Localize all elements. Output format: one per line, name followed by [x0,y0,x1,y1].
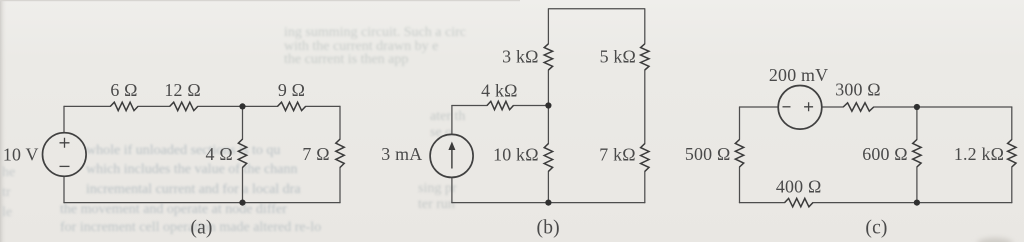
svg-text:the current is then app: the current is then app [284,52,408,67]
svg-text:ing summing circuit. Such a ci: ing summing circuit. Such a circ [284,25,466,40]
svg-text:600 Ω: 600 Ω [862,144,908,164]
svg-text:whole if unloaded sections is: whole if unloaded sections is to qu [86,143,280,158]
svg-text:7 Ω: 7 Ω [302,144,329,164]
svg-text:10 V: 10 V [3,145,39,165]
svg-text:ater th: ater th [430,109,465,124]
svg-text:(a): (a) [190,218,212,239]
svg-text:4 Ω: 4 Ω [206,144,233,164]
svg-text:ter run: ter run [418,197,455,212]
svg-text:500 Ω: 500 Ω [685,144,731,164]
svg-text:200 mV: 200 mV [769,65,828,85]
svg-text:10 kΩ: 10 kΩ [493,144,539,164]
svg-text:le: le [2,205,12,220]
svg-text:3 mA: 3 mA [381,144,422,164]
svg-text:incremental current and for a: incremental current and for a local dra [86,182,301,197]
svg-text:4 kΩ: 4 kΩ [481,81,517,101]
svg-text:the movement and operate at no: the movement and operate at node differ [60,202,287,217]
svg-text:sing pr: sing pr [418,181,457,196]
svg-text:3 kΩ: 3 kΩ [502,46,538,66]
svg-text:9 Ω: 9 Ω [278,80,305,100]
svg-text:which includes the value of th: which includes the value of the chann [86,162,297,177]
svg-text:300 Ω: 300 Ω [835,80,881,100]
svg-text:1.2 kΩ: 1.2 kΩ [954,144,1004,164]
svg-text:6 Ω: 6 Ω [110,80,137,100]
svg-text:(b): (b) [537,218,560,239]
svg-text:400 Ω: 400 Ω [776,176,822,196]
svg-text:he: he [2,165,15,180]
svg-text:7 kΩ: 7 kΩ [599,144,635,164]
svg-text:(c): (c) [865,218,887,239]
svg-text:12 Ω: 12 Ω [164,80,200,100]
svg-text:5 kΩ: 5 kΩ [600,46,636,66]
svg-text:tr: tr [2,185,11,200]
